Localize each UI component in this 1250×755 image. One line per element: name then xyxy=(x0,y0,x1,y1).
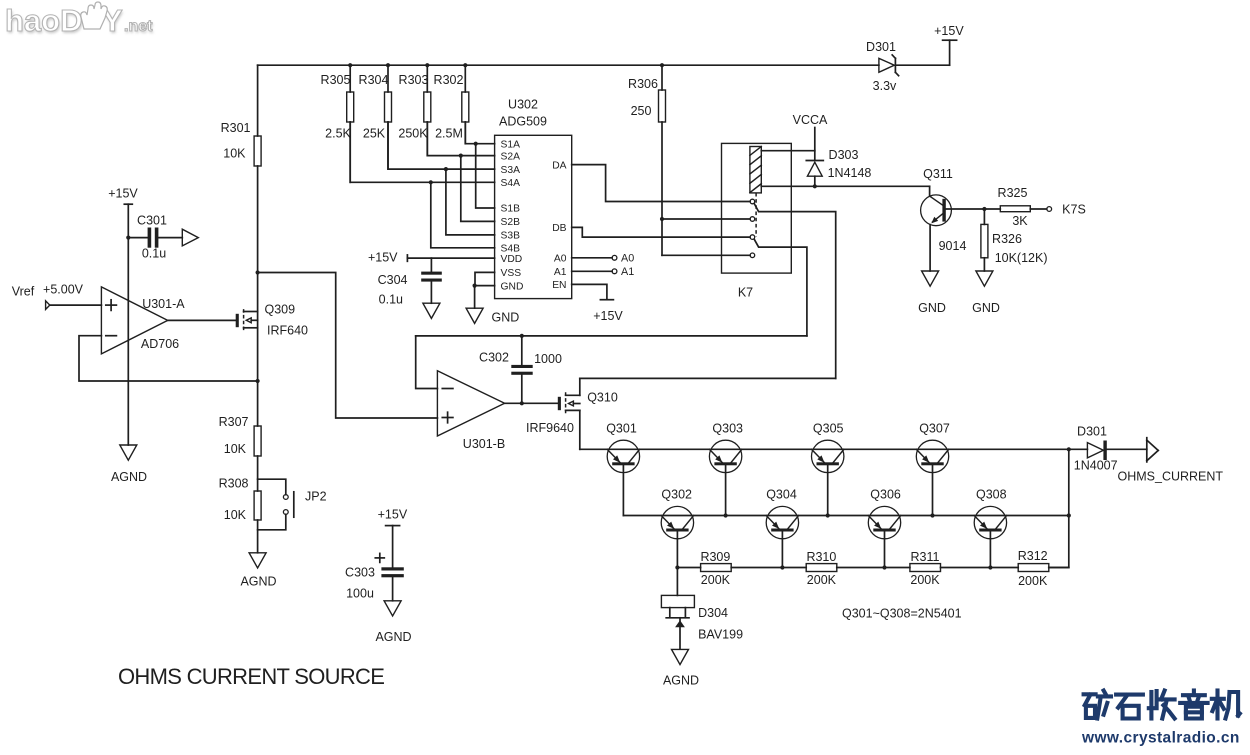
svg-text:R325: R325 xyxy=(998,186,1028,200)
svg-text:VCCA: VCCA xyxy=(793,113,828,127)
svg-text:R303: R303 xyxy=(399,73,429,87)
svg-text:D303: D303 xyxy=(829,148,859,162)
svg-text:U301-A: U301-A xyxy=(142,297,185,311)
svg-text:K7S: K7S xyxy=(1062,203,1086,217)
svg-text:.net: .net xyxy=(124,18,153,35)
svg-text:OHMS CURRENT SOURCE: OHMS CURRENT SOURCE xyxy=(118,664,384,689)
svg-text:AGND: AGND xyxy=(240,575,276,589)
svg-text:DA: DA xyxy=(552,160,566,171)
svg-text:haoD: haoD xyxy=(5,3,83,38)
svg-text:A0: A0 xyxy=(621,253,634,265)
svg-text:+15V: +15V xyxy=(378,508,408,522)
svg-text:R310: R310 xyxy=(806,550,836,564)
svg-text:ADG509: ADG509 xyxy=(499,115,547,129)
svg-text:R305: R305 xyxy=(321,73,351,87)
svg-text:Q310: Q310 xyxy=(587,391,618,405)
svg-text:R312: R312 xyxy=(1018,549,1048,563)
svg-text:Q305: Q305 xyxy=(813,422,844,436)
svg-text:Q308: Q308 xyxy=(976,488,1007,502)
svg-text:10K: 10K xyxy=(223,147,246,161)
svg-text:Q307: Q307 xyxy=(919,422,950,436)
svg-text:200K: 200K xyxy=(1018,574,1048,588)
svg-text:GND: GND xyxy=(501,281,524,292)
svg-text:VSS: VSS xyxy=(501,268,522,279)
svg-text:R311: R311 xyxy=(911,550,940,564)
svg-text:OHMS_CURRENT: OHMS_CURRENT xyxy=(1118,470,1224,484)
svg-text:Vref: Vref xyxy=(12,284,35,298)
svg-text:3K: 3K xyxy=(1012,214,1028,228)
svg-text:S4A: S4A xyxy=(501,178,521,189)
svg-text:R304: R304 xyxy=(359,73,389,87)
svg-text:GND: GND xyxy=(918,301,946,315)
svg-text:Q309: Q309 xyxy=(265,303,296,317)
svg-text:Q306: Q306 xyxy=(870,488,901,502)
svg-text:BAV199: BAV199 xyxy=(698,628,743,642)
svg-text:S2A: S2A xyxy=(501,151,521,162)
svg-text:C304: C304 xyxy=(378,273,408,287)
svg-text:Q301: Q301 xyxy=(606,422,637,436)
svg-text:AD706: AD706 xyxy=(141,337,179,351)
svg-text:1N4148: 1N4148 xyxy=(828,166,872,180)
svg-text:U302: U302 xyxy=(508,98,538,112)
svg-text:VDD: VDD xyxy=(501,254,523,265)
svg-text:3.3v: 3.3v xyxy=(873,79,897,93)
svg-text:Q301~Q308=2N5401: Q301~Q308=2N5401 xyxy=(842,607,962,621)
svg-text:25K: 25K xyxy=(363,127,386,141)
svg-text:JP2: JP2 xyxy=(305,490,327,504)
svg-text:U301-B: U301-B xyxy=(463,437,505,451)
svg-text:GND: GND xyxy=(972,301,1000,315)
svg-text:250: 250 xyxy=(631,104,652,118)
svg-text:+15V: +15V xyxy=(593,309,623,323)
svg-text:S3B: S3B xyxy=(501,231,521,242)
svg-text:250K: 250K xyxy=(398,127,428,141)
svg-text:D304: D304 xyxy=(698,606,728,620)
svg-text:10K(12K): 10K(12K) xyxy=(995,251,1048,265)
svg-text:Q303: Q303 xyxy=(712,422,743,436)
svg-text:+5.00V: +5.00V xyxy=(43,283,84,297)
svg-text:Q311: Q311 xyxy=(923,167,953,181)
svg-text:IRF640: IRF640 xyxy=(267,324,308,338)
svg-text:S2B: S2B xyxy=(501,217,521,228)
svg-text:9014: 9014 xyxy=(939,239,967,253)
svg-text:A1: A1 xyxy=(554,267,567,278)
svg-text:AGND: AGND xyxy=(375,630,411,644)
svg-text:C301: C301 xyxy=(137,214,167,228)
svg-text:D301: D301 xyxy=(1077,425,1107,439)
svg-text:GND: GND xyxy=(492,311,520,325)
svg-text:200K: 200K xyxy=(807,573,837,587)
svg-text:0.1u: 0.1u xyxy=(379,293,403,307)
svg-text:0.1u: 0.1u xyxy=(142,247,166,261)
svg-text:2.5M: 2.5M xyxy=(435,127,463,141)
svg-text:10K: 10K xyxy=(224,508,247,522)
svg-text:DB: DB xyxy=(552,223,566,234)
svg-text:AGND: AGND xyxy=(663,674,699,688)
svg-text:IRF9640: IRF9640 xyxy=(526,421,574,435)
svg-text:R326: R326 xyxy=(992,232,1022,246)
svg-text:A0: A0 xyxy=(554,254,567,265)
svg-text:+15V: +15V xyxy=(368,251,398,265)
svg-text:100u: 100u xyxy=(346,587,374,601)
svg-text:R301: R301 xyxy=(221,121,251,135)
svg-text:www.crystalradio.cn: www.crystalradio.cn xyxy=(1081,730,1240,747)
svg-text:R306: R306 xyxy=(628,77,658,91)
svg-text:1000: 1000 xyxy=(534,352,562,366)
svg-text:Q302: Q302 xyxy=(661,488,692,502)
svg-text:R307: R307 xyxy=(219,415,249,429)
svg-text:Q304: Q304 xyxy=(766,488,797,502)
svg-text:R309: R309 xyxy=(700,550,730,564)
svg-text:EN: EN xyxy=(552,280,566,291)
svg-text:+15V: +15V xyxy=(934,24,964,38)
svg-text:A1: A1 xyxy=(621,266,634,278)
svg-text:200K: 200K xyxy=(910,573,940,587)
svg-text:1N4007: 1N4007 xyxy=(1074,459,1118,473)
svg-text:S3A: S3A xyxy=(501,165,521,176)
svg-text:AGND: AGND xyxy=(111,470,147,484)
svg-text:S1A: S1A xyxy=(501,139,521,150)
svg-text:R302: R302 xyxy=(434,73,464,87)
svg-text:D301: D301 xyxy=(866,40,896,54)
svg-text:K7: K7 xyxy=(738,286,753,300)
svg-text:R308: R308 xyxy=(219,477,249,491)
svg-text:10K: 10K xyxy=(224,442,247,456)
svg-text:S1B: S1B xyxy=(501,204,521,215)
svg-text:C302: C302 xyxy=(479,351,509,365)
svg-text:200K: 200K xyxy=(701,573,731,587)
svg-text:C303: C303 xyxy=(345,566,375,580)
svg-text:2.5K: 2.5K xyxy=(325,127,351,141)
svg-text:+15V: +15V xyxy=(108,187,138,201)
